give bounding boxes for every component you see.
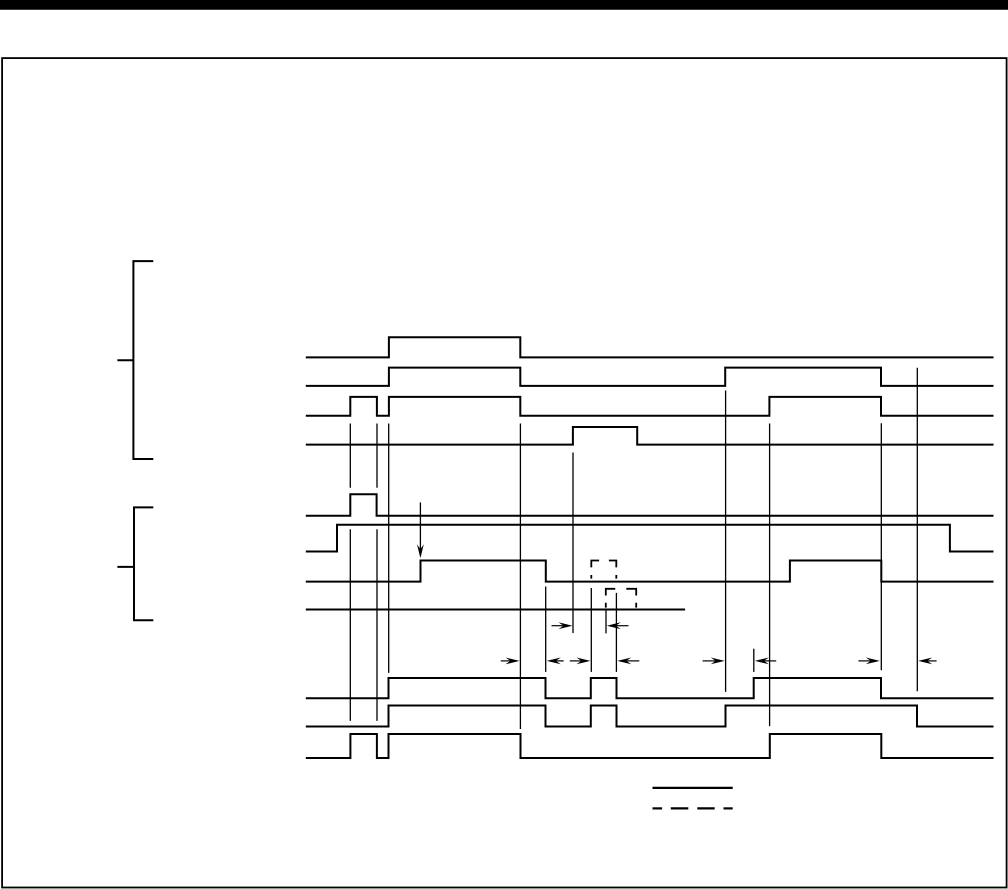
node ref-754 — [753, 649, 755, 672]
legend solid line — [653, 787, 733, 789]
bracket group 2 — [117, 507, 153, 620]
thin vertical reference lines — [350, 368, 917, 729]
node ref-350 — [349, 424, 351, 721]
arrow right at 881 — [858, 660, 871, 662]
dimension arrows lower row — [501, 658, 937, 665]
node ref-606 — [605, 611, 607, 634]
wave row4 — [306, 427, 994, 445]
wave row8 — [306, 609, 685, 611]
node ref-377 — [376, 424, 378, 721]
header bar — [0, 0, 1008, 10]
wave row9 — [306, 678, 994, 698]
arrow right at 573 — [552, 625, 565, 627]
dimension arrows upper row — [552, 622, 629, 629]
node ref-573 — [572, 453, 574, 634]
wave row1 — [306, 337, 994, 357]
node ref-591 — [590, 588, 592, 672]
wave row11 — [306, 734, 994, 758]
node ref-388 — [388, 424, 390, 673]
arrow left at 546 — [555, 660, 564, 662]
bracket group 1 — [117, 261, 153, 459]
wave row2 — [306, 368, 994, 386]
dashed pulse on row8 — [606, 589, 636, 608]
node ref-769 — [769, 424, 771, 727]
arrow left at 917 — [926, 660, 937, 662]
arrow left at 754 — [763, 660, 776, 662]
arrow right at 520 — [501, 660, 511, 662]
legend dashed line — [653, 807, 733, 809]
wave row3 — [306, 397, 994, 416]
arrow left at 606 — [615, 625, 629, 627]
wave row6 — [306, 525, 994, 552]
node ref-881 — [880, 423, 882, 670]
arrow right at 725 — [703, 660, 716, 662]
wave row7 — [306, 561, 994, 582]
arrow right at 591 — [570, 660, 582, 662]
node ref-616 — [615, 593, 617, 672]
waveforms — [306, 337, 994, 758]
wave row5 — [306, 494, 994, 516]
wave row10 — [306, 706, 994, 727]
arrow left at 616 — [626, 660, 639, 662]
down arrow annotation — [417, 502, 424, 558]
dashed pulse on row7 — [591, 561, 616, 579]
node ref-520 — [519, 424, 521, 730]
node ref-917 — [916, 368, 918, 692]
node ref-725 — [725, 391, 727, 692]
node ref-545 — [545, 587, 547, 672]
